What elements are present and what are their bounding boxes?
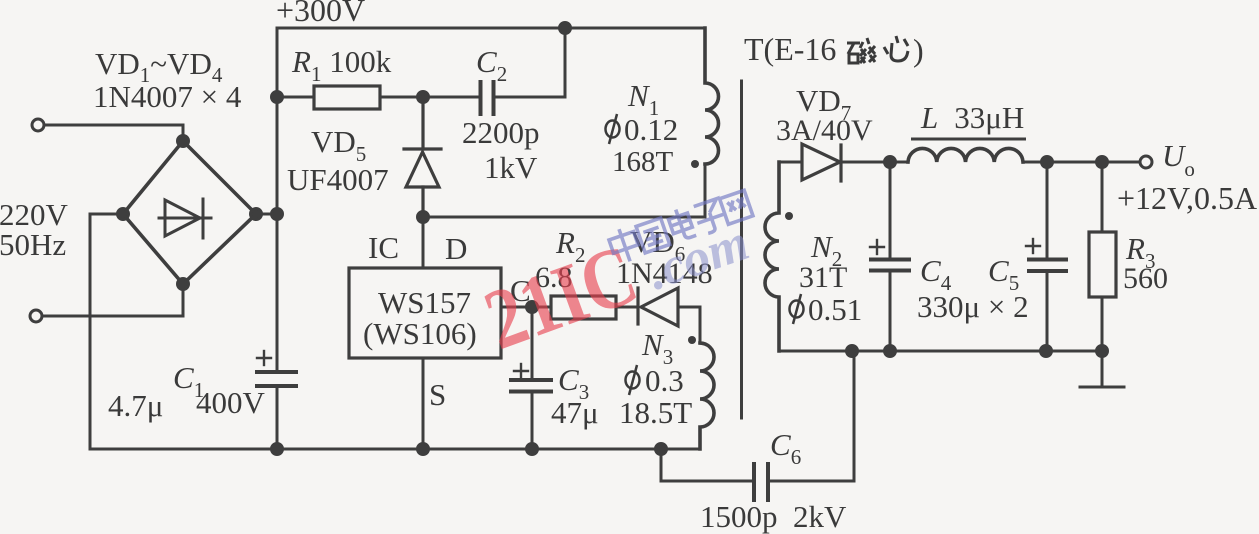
winding N3 [700, 343, 714, 449]
node R3 top [1097, 157, 1108, 168]
svg-text:+12V,0.5A: +12V,0.5A [1117, 180, 1257, 216]
label closing paren [913, 32, 924, 68]
svg-text:D: D [445, 231, 467, 266]
watermark red 21IC [473, 227, 649, 369]
wire node to L [890, 161, 908, 164]
node VD7/C4/L junction [885, 157, 896, 168]
label 1N4007 x 4 [93, 79, 242, 114]
label 400V [196, 385, 266, 420]
label N1 [627, 78, 659, 120]
svg-text:1kV: 1kV [484, 150, 538, 185]
polarity mark C3 [514, 364, 528, 378]
node S on bottom rail [418, 444, 429, 455]
label C6 [770, 427, 801, 469]
svg-text:S: S [429, 377, 446, 412]
svg-text:WS157: WS157 [378, 285, 471, 320]
label R1 [291, 44, 392, 86]
label 18.5T [619, 395, 692, 430]
wire L to output terminal [1023, 161, 1139, 164]
svg-text:2200p: 2200p [462, 115, 540, 150]
wire bottom rail [90, 448, 700, 451]
node ground junction [1097, 346, 1108, 357]
capacitor C2 [481, 82, 494, 114]
watermark blue chinese characters [607, 187, 754, 266]
label 3A/40V [776, 114, 873, 147]
node bridge top vertex [178, 136, 189, 147]
wire R1 left lead [277, 96, 314, 99]
wire left rail vertical (+300V) [276, 28, 279, 372]
label S pin name [429, 377, 446, 412]
svg-text:18.5T: 18.5T [619, 395, 692, 430]
label R3 [1125, 231, 1155, 273]
svg-text:3A/40V: 3A/40V [776, 114, 873, 147]
wire C6 left branch [661, 449, 752, 481]
label WS157 [378, 285, 471, 320]
label 330u x 2 [917, 289, 1029, 324]
label 220V [0, 197, 69, 232]
node C2 on top rail [560, 23, 571, 34]
label 4.7u [108, 388, 163, 423]
wire R2 to VD6 [616, 306, 638, 309]
wire VD7 to output node [840, 161, 890, 164]
label 47u [551, 395, 599, 430]
resistor R3 [1089, 162, 1116, 351]
label magnetic core glyph ci [847, 38, 876, 63]
label C pin name [510, 273, 531, 308]
ground [1080, 351, 1124, 387]
wire VD6 to N3 top [678, 307, 700, 343]
svg-text:50Hz: 50Hz [0, 227, 66, 262]
svg-text:): ) [913, 32, 924, 68]
label UF4007 [287, 162, 389, 197]
label +12V 0.5A [1117, 180, 1257, 216]
resistor R1 [314, 86, 380, 109]
node C junction [527, 302, 538, 313]
winding N2 [765, 162, 779, 351]
label N2 [810, 229, 842, 271]
label D pin name [445, 231, 467, 266]
label phi 0.51 [790, 292, 863, 327]
label WS106 [363, 316, 477, 351]
svg-text:31T: 31T [799, 261, 847, 294]
svg-text:560: 560 [1123, 262, 1168, 295]
wire drain line to N1 bottom [423, 164, 705, 217]
svg-text:IC: IC [368, 230, 399, 265]
wire S pin [422, 358, 425, 449]
phase dot N2 [785, 212, 793, 220]
label 2200p [462, 115, 540, 150]
svg-text:L33μH: L33μH [920, 100, 1024, 135]
label L 33uH [920, 100, 1024, 135]
label T(E-16 core) [744, 31, 836, 67]
input terminal bottom [30, 310, 42, 322]
svg-text:168T: 168T [612, 146, 674, 178]
label magnetic core glyph xin [884, 36, 908, 61]
input terminal top [32, 119, 44, 131]
label VD7 [796, 83, 851, 125]
node C3 bottom on rail [527, 444, 538, 455]
wire bridge left vertex to bottom rail [90, 214, 123, 449]
svg-text:(WS106): (WS106) [363, 316, 477, 351]
svg-text:1N4007 × 4: 1N4007 × 4 [93, 79, 242, 114]
label +300V [276, 0, 365, 28]
capacitor C1 electrolytic [257, 372, 296, 386]
label Uo [1162, 138, 1195, 181]
underline of L label [911, 138, 1026, 141]
wire R1 right lead [380, 96, 423, 99]
label VD1~VD4 [95, 46, 223, 87]
svg-text:0.3: 0.3 [645, 363, 684, 398]
capacitor C3 electrolytic [511, 307, 551, 449]
wire node to C2 left plate [423, 96, 479, 99]
diode VD5 (cathode up) [404, 97, 441, 217]
wire N2 top to VD7 [779, 161, 802, 164]
wire C2 right plate to top rail [495, 28, 565, 97]
node R1 left on rail [272, 92, 283, 103]
svg-text:UF4007: UF4007 [287, 162, 389, 197]
wire +300V top rail [277, 27, 705, 30]
label C1 [173, 360, 204, 402]
node bridge right vertex [251, 209, 262, 220]
watermark blue com script [640, 214, 756, 301]
bridge rectifier VD1~VD4 diamond [123, 141, 256, 284]
polarity mark C1 [257, 351, 271, 365]
svg-text:400V: 400V [196, 385, 266, 420]
svg-text:47μ: 47μ [551, 395, 599, 430]
label 1kV [484, 150, 538, 185]
node C6 on secondary return [847, 346, 858, 357]
svg-text:4.7μ: 4.7μ [108, 388, 163, 423]
phase dot N3 [688, 336, 696, 344]
node C4 bottom [885, 346, 896, 357]
winding N1 [705, 28, 719, 164]
label C3 [558, 362, 589, 404]
inductor L [908, 148, 1023, 162]
polarity mark C4 [870, 240, 884, 254]
label C5 [988, 253, 1019, 295]
label 168T [612, 146, 674, 178]
label 1500p 2kV [700, 499, 847, 534]
node C6 tap on bottom rail [656, 444, 667, 455]
wire secondary return rail [779, 350, 1102, 353]
diode VD6 (pointing left) [638, 288, 678, 326]
node bridge left vertex [118, 209, 129, 220]
node C1 bottom on rail [272, 444, 283, 455]
label 50Hz [0, 227, 66, 262]
bridge inner diode symbol [159, 199, 211, 238]
output terminal Uo [1140, 156, 1152, 168]
wire bridge right vertex to left rail [256, 213, 277, 216]
polarity mark C5 [1026, 239, 1040, 253]
wire from top terminal to bridge top vertex [44, 125, 183, 141]
wire from bottom terminal to bridge bottom vertex [42, 284, 183, 316]
label VD5 [311, 124, 366, 166]
IC WS157 box [349, 268, 501, 358]
svg-text:T(E-16: T(E-16 [744, 31, 836, 67]
label C2 [476, 44, 507, 86]
phase dot N1 [691, 160, 699, 168]
wire C pin [501, 306, 532, 309]
resistor R2 [551, 296, 616, 319]
label R2 [555, 225, 585, 267]
label 31T [799, 261, 847, 294]
node drain junction [418, 212, 429, 223]
label N3 [641, 327, 673, 369]
capacitor C6 [754, 464, 768, 500]
capacitor C4 electrolytic [871, 162, 909, 351]
svg-text:0.12: 0.12 [624, 112, 678, 147]
node C5 top [1042, 157, 1053, 168]
node bridge bottom vertex [178, 279, 189, 290]
wire D pin [422, 217, 425, 268]
label 560 [1123, 262, 1168, 295]
label IC pin name [368, 230, 399, 265]
diode VD7 (pointing right) [802, 144, 841, 181]
svg-text:+300V: +300V [276, 0, 365, 28]
node snubber junction R1/C2/VD5 [418, 92, 429, 103]
transformer core [740, 81, 743, 418]
label C4 [920, 253, 952, 295]
svg-text:0.51: 0.51 [808, 292, 862, 327]
label phi 0.3 [626, 363, 684, 398]
node DC+ on left rail [272, 209, 283, 220]
capacitor C5 electrolytic [1029, 162, 1066, 351]
wire C6 right branch to secondary return [770, 351, 855, 481]
label VD6 [630, 224, 685, 266]
label 1N4148 [616, 257, 713, 290]
label phi 0.12 [606, 112, 679, 147]
wire C node to R2 [532, 306, 551, 309]
svg-text:1500p 2kV: 1500p 2kV [700, 499, 847, 534]
label 6.8 [535, 261, 573, 294]
wire left rail below C1 [276, 386, 279, 449]
node C5 bottom [1041, 346, 1052, 357]
